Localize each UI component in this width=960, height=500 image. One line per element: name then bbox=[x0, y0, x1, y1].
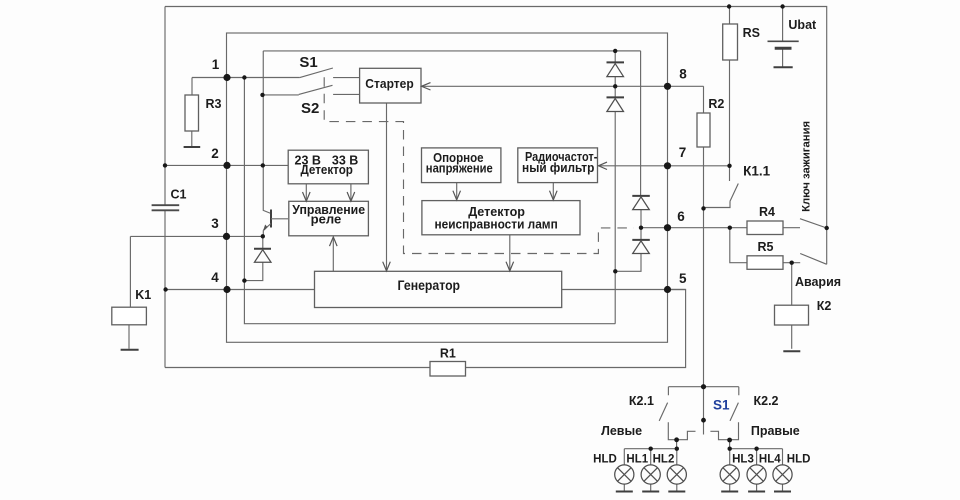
svg-text:1: 1 bbox=[212, 57, 220, 72]
svg-text:К2: К2 bbox=[817, 299, 832, 313]
svg-text:4: 4 bbox=[211, 270, 219, 285]
svg-text:HL3: HL3 bbox=[732, 454, 754, 466]
svg-text:3: 3 bbox=[211, 216, 219, 231]
svg-text:К2.2: К2.2 bbox=[753, 394, 778, 408]
svg-text:C1: C1 bbox=[171, 188, 187, 202]
svg-text:Детектор: Детектор bbox=[301, 163, 354, 177]
svg-text:2: 2 bbox=[211, 146, 219, 161]
svg-text:Детектор: Детектор bbox=[468, 204, 525, 219]
svg-text:8: 8 bbox=[679, 66, 687, 81]
svg-text:реле: реле bbox=[311, 212, 342, 226]
svg-text:R1: R1 bbox=[440, 347, 456, 361]
svg-text:S1: S1 bbox=[713, 397, 730, 412]
svg-text:HLD: HLD bbox=[593, 454, 617, 466]
svg-text:R3: R3 bbox=[206, 97, 222, 111]
svg-text:R2: R2 bbox=[708, 97, 724, 111]
svg-text:6: 6 bbox=[677, 209, 685, 224]
svg-text:Ubat: Ubat bbox=[788, 18, 817, 32]
svg-text:S1: S1 bbox=[299, 54, 317, 71]
svg-text:R4: R4 bbox=[759, 205, 775, 219]
svg-text:S2: S2 bbox=[301, 100, 319, 117]
svg-text:Генератор: Генератор bbox=[398, 278, 461, 293]
svg-text:Ключ зажигания: Ключ зажигания bbox=[801, 121, 813, 212]
svg-text:ный фильтр: ный фильтр bbox=[522, 161, 595, 175]
svg-text:К2.1: К2.1 bbox=[629, 394, 654, 408]
svg-text:HL4: HL4 bbox=[759, 454, 781, 466]
svg-text:Авария: Авария bbox=[795, 275, 841, 289]
svg-text:К1.1: К1.1 bbox=[743, 164, 770, 179]
svg-text:Правые: Правые bbox=[751, 424, 800, 438]
svg-text:HL1: HL1 bbox=[626, 454, 648, 466]
svg-text:Левые: Левые bbox=[601, 424, 642, 438]
svg-text:K1: K1 bbox=[135, 288, 151, 302]
svg-text:HLD: HLD bbox=[787, 454, 811, 466]
svg-text:5: 5 bbox=[679, 271, 687, 286]
svg-text:неисправности ламп: неисправности ламп bbox=[434, 218, 557, 232]
svg-text:7: 7 bbox=[679, 145, 687, 160]
svg-text:HL2: HL2 bbox=[653, 454, 675, 466]
svg-text:напряжение: напряжение bbox=[426, 162, 493, 176]
svg-text:Стартер: Стартер bbox=[365, 77, 414, 91]
svg-text:R5: R5 bbox=[758, 240, 774, 254]
svg-text:RS: RS bbox=[743, 26, 760, 40]
